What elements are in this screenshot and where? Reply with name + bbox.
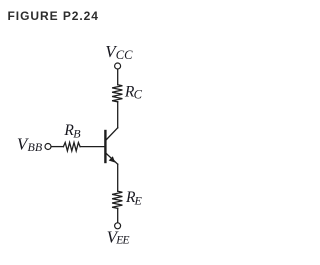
wire VBB to RB: [52, 146, 64, 148]
emitter arrowhead: [109, 157, 114, 162]
collector diagonal: [106, 128, 118, 140]
transistor Q1 base bar: [104, 131, 106, 162]
terminal VCC: [115, 63, 121, 69]
resistor RC: [112, 85, 122, 102]
svg-text:EE: EE: [115, 235, 129, 247]
svg-text:BB: BB: [28, 140, 43, 154]
svg-text:CC: CC: [116, 48, 133, 62]
wire VCC to RC: [117, 70, 119, 85]
svg-text:E: E: [134, 193, 143, 207]
terminal VEE: [115, 223, 121, 229]
emitter diagonal: [106, 153, 118, 164]
figure title: [8, 9, 99, 23]
svg-text:B: B: [73, 126, 81, 140]
wire emitter to RE: [117, 164, 119, 191]
wire RC to collector corner: [117, 102, 119, 128]
wire RB to base: [80, 146, 104, 148]
wire RE to VEE: [117, 208, 119, 222]
svg-text:C: C: [134, 88, 143, 102]
resistor RB: [63, 143, 80, 151]
resistor RE: [112, 191, 122, 208]
terminal VBB: [45, 144, 51, 150]
